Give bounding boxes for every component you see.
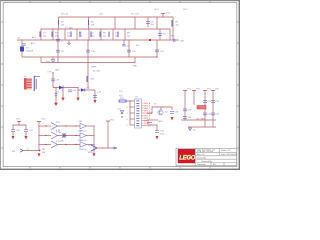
wire row2 [39,135,51,137]
red connector pins mid-left [24,78,32,90]
wire ic stubs [147,119,158,121]
svg-text:VREF: VREF [91,67,97,69]
wire W5 mid horizontal [53,87,78,89]
IC pins right red comb [142,103,148,126]
wire drop x58 [57,40,59,63]
wire cap drop x160 [159,29,161,40]
wire rail R4 bottom [22,56,157,58]
red pads / NC [147,27,151,42]
svg-text:LEGO: LEGO [179,155,195,161]
svg-text:SW: SW [42,152,45,154]
wire ic left bus [129,100,131,125]
wire rail R2 [41,28,170,30]
svg-text:Drawn By:: Drawn By: [197,157,207,159]
wire stub x148 [147,17,149,27]
connector J mid bracket [34,76,40,91]
svg-text:U1C: U1C [78,140,83,142]
svg-text:TP_OUT: TP_OUT [131,14,140,16]
cap x53 mid [51,79,55,81]
svg-text:74HC14: 74HC14 [79,149,87,151]
wire ic bottom out [147,125,157,130]
wire vcc bus x39 [38,122,40,145]
svg-text:2: 2 [127,107,128,109]
svg-text:Rev: 1.0: Rev: 1.0 [197,154,205,156]
wire comp drop x88.5 [88,17,90,29]
svg-text:10k: 10k [55,36,58,38]
wire cap stub right [25,132,27,136]
cap x157 bottom [155,131,159,133]
svg-text:VCC: VCC [207,89,212,91]
wire drop x163 power [162,14,164,18]
resistor x173 [171,20,173,27]
cap x148 [146,22,150,24]
svg-text:NET2: NET2 [183,9,189,11]
svg-text:PCB_Ver: 2021-A: PCB_Ver: 2021-A [197,150,213,153]
svg-text:1: 1 [127,101,128,103]
wire cap x53 lower [52,57,54,59]
ferrite bead FB1 inline R3 end [173,39,175,42]
cap x95 [93,96,97,98]
wire out bus x94 [93,126,95,148]
svg-text:NC_PAD: NC_PAD [197,118,206,121]
wire drop x135 [134,17,136,29]
wire gnd x190 [189,127,191,128]
wire x53 down [52,73,54,88]
wire row3 [39,144,51,146]
IC inner pin labels smudge [136,101,139,127]
wire rail R4b [41,62,135,64]
gnd diode x190 [189,128,192,131]
title block texts [197,148,237,166]
components blue [11,20,215,152]
svg-text:MID: MID [69,27,73,29]
gate triangles [80,123,87,128]
wire vcc pair bottom-left [13,122,19,130]
gnd x124 [122,44,126,46]
svg-text:10k: 10k [91,25,94,27]
resistor R5 on x88.5 [88,20,90,25]
wire input drop [21,40,23,57]
wire cap bank rails [181,119,216,121]
power tees [17,14,215,122]
wire bottom out [97,147,117,149]
svg-text:BASE: BASE [148,112,154,115]
wire comps R2-R3 [64,29,66,40]
svg-text:VCC: VCC [187,89,192,91]
svg-text:3: 3 [127,113,128,115]
svg-text:U1A: U1A [78,120,83,123]
cap x172 [170,112,174,114]
svg-text:T2: T2 [27,149,29,151]
svg-text:VCC: VCC [110,120,115,122]
svg-text:VCC: VCC [16,119,21,121]
transistor Q circle [158,110,163,115]
comps R2-R3 [39,32,41,38]
wire transistor loop [147,107,172,113]
svg-text:Sheet: 1/1: Sheet: 1/1 [221,149,231,152]
IC left pin numbers [127,101,128,127]
svg-text:5: 5 [127,125,128,127]
diode x84 [81,88,85,92]
wire rail R3 main [17,39,179,41]
svg-text:CLK: CLK [99,14,104,16]
caps bank row1 [203,101,207,103]
frame tick left [1,21,3,23]
glyph bottom x100 [91,145,117,151]
svg-text:SIG: SIG [119,96,123,98]
svg-text:10k: 10k [79,36,82,38]
wire long vertical x88 down [87,57,89,88]
cap below W5 x70 [68,90,72,92]
svg-text:VCC: VCC [42,119,47,121]
svg-text:Company: Company [197,164,206,166]
svg-text:10k: 10k [103,36,106,38]
node glyph x39 [39,150,41,152]
svg-text:IN_CAL: IN_CAL [93,70,101,73]
logo [178,149,196,163]
wire comp drop x58.5 [58,17,60,29]
svg-text:4: 4 [127,119,128,121]
wire cap bank verticals [184,91,186,121]
resistor x88 mid [86,76,88,82]
title block [176,148,237,165]
svg-text:GND: GND [158,121,163,123]
input port chevron bottom-left [20,149,23,152]
svg-text:Checked By:: Checked By: [201,161,213,163]
svg-text:Date: 2021-05-20: Date: 2021-05-20 [221,153,237,156]
svg-text:GND: GND [133,66,138,68]
wire row1 [39,125,51,127]
caps below R4 [51,59,55,61]
wire right end [172,17,174,40]
cap x160 [158,34,162,36]
IC body [135,99,142,128]
svg-text:10k: 10k [61,25,64,27]
svg-text:VCC: VCC [166,13,171,15]
resistor R3 on x58.5 [58,20,60,25]
LED mid [121,111,124,114]
wire cap stub left [12,132,14,136]
wire caps to R4 [57,29,59,40]
wire drop x56 [55,88,57,103]
tiny blue text labels [12,9,220,154]
capacitor input small [22,44,25,45]
diode inline W5 [59,86,63,90]
wire res to ic [126,100,130,102]
bead x58 inline [56,39,60,41]
wire rail R1 top [59,16,174,18]
star glyph x64 [62,133,66,138]
wire gnd stub x69 [68,40,70,43]
svg-text:VCC_A: VCC_A [61,13,68,16]
caps bank row2 [203,113,207,115]
svg-text:GND: GND [55,70,60,72]
svg-text:1N4148: 1N4148 [26,51,34,53]
wire W5 jog [78,88,95,91]
red NC box right bank [197,106,206,110]
bead on x56 drop [55,94,58,96]
caps above R4 [56,50,60,52]
caps x185 [183,109,187,111]
wire gate outputs [87,125,95,127]
wire drop x157 [156,17,158,29]
resistor horizontal to IC [119,100,126,102]
svg-text:NET1: NET1 [154,9,160,11]
red testpoint arrows [12,98,174,157]
gnd x69 [67,43,71,44]
svg-text:10k: 10k [176,25,179,27]
wire ic left pins [130,100,135,102]
diode D input [20,47,24,52]
transistor glyphs rows [51,123,58,130]
sheet frame [3,3,237,167]
svg-text:CTRL: CTRL [47,72,53,74]
wire drop x41 [40,29,42,40]
svg-text:100u: 100u [160,134,164,136]
svg-text:LED: LED [60,141,64,143]
wire vcc drop x108 [107,121,109,148]
caps bottom-left pair [11,130,15,132]
svg-text:MOD: MOD [88,152,93,154]
wire tp drops [62,88,64,98]
page outer shadow edges [1,1,240,170]
svg-text:10k: 10k [127,36,130,38]
svg-text:U1B: U1B [78,131,83,133]
wire drop x53 [52,29,54,40]
wire gnd stub x124 [123,40,125,44]
wire bottom-left input [22,150,39,152]
wire drop x115 [114,17,116,29]
wire W5 right down [94,90,96,100]
red junction squares rows [45,125,76,145]
wire drop x170 [169,29,171,40]
